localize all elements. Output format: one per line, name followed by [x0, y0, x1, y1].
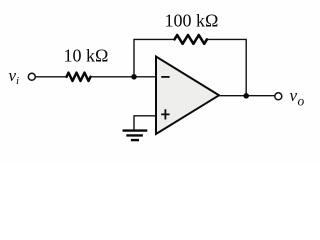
wire noninverting input to ground [134, 116, 156, 130]
svg-text:100 kΩ: 100 kΩ [165, 10, 219, 30]
node B junction dot at output [243, 93, 249, 99]
op-amp minus pin label [161, 76, 169, 78]
wire resistor to inverting input node [91, 76, 157, 78]
resistor R2 100 kOhm zigzag [175, 35, 207, 44]
wire input to resistor R1 [36, 76, 67, 78]
op-amp plus pin label [161, 109, 169, 119]
ground [123, 131, 148, 141]
op-amp U1 triangle [156, 57, 219, 135]
svg-text:vo: vo [290, 86, 305, 108]
wire feedback left riser and top rail [134, 39, 175, 76]
terminal circle output v_o [275, 93, 282, 100]
resistor R1 10 kOhm zigzag [67, 73, 91, 81]
node A junction dot at inverting input [131, 74, 137, 80]
svg-text:vi: vi [9, 66, 20, 87]
terminal circle input v_i [28, 73, 35, 80]
svg-text:10 kΩ: 10 kΩ [64, 46, 109, 66]
wire op-amp output [219, 95, 275, 97]
wire top rail right and down riser to output node [207, 39, 246, 95]
